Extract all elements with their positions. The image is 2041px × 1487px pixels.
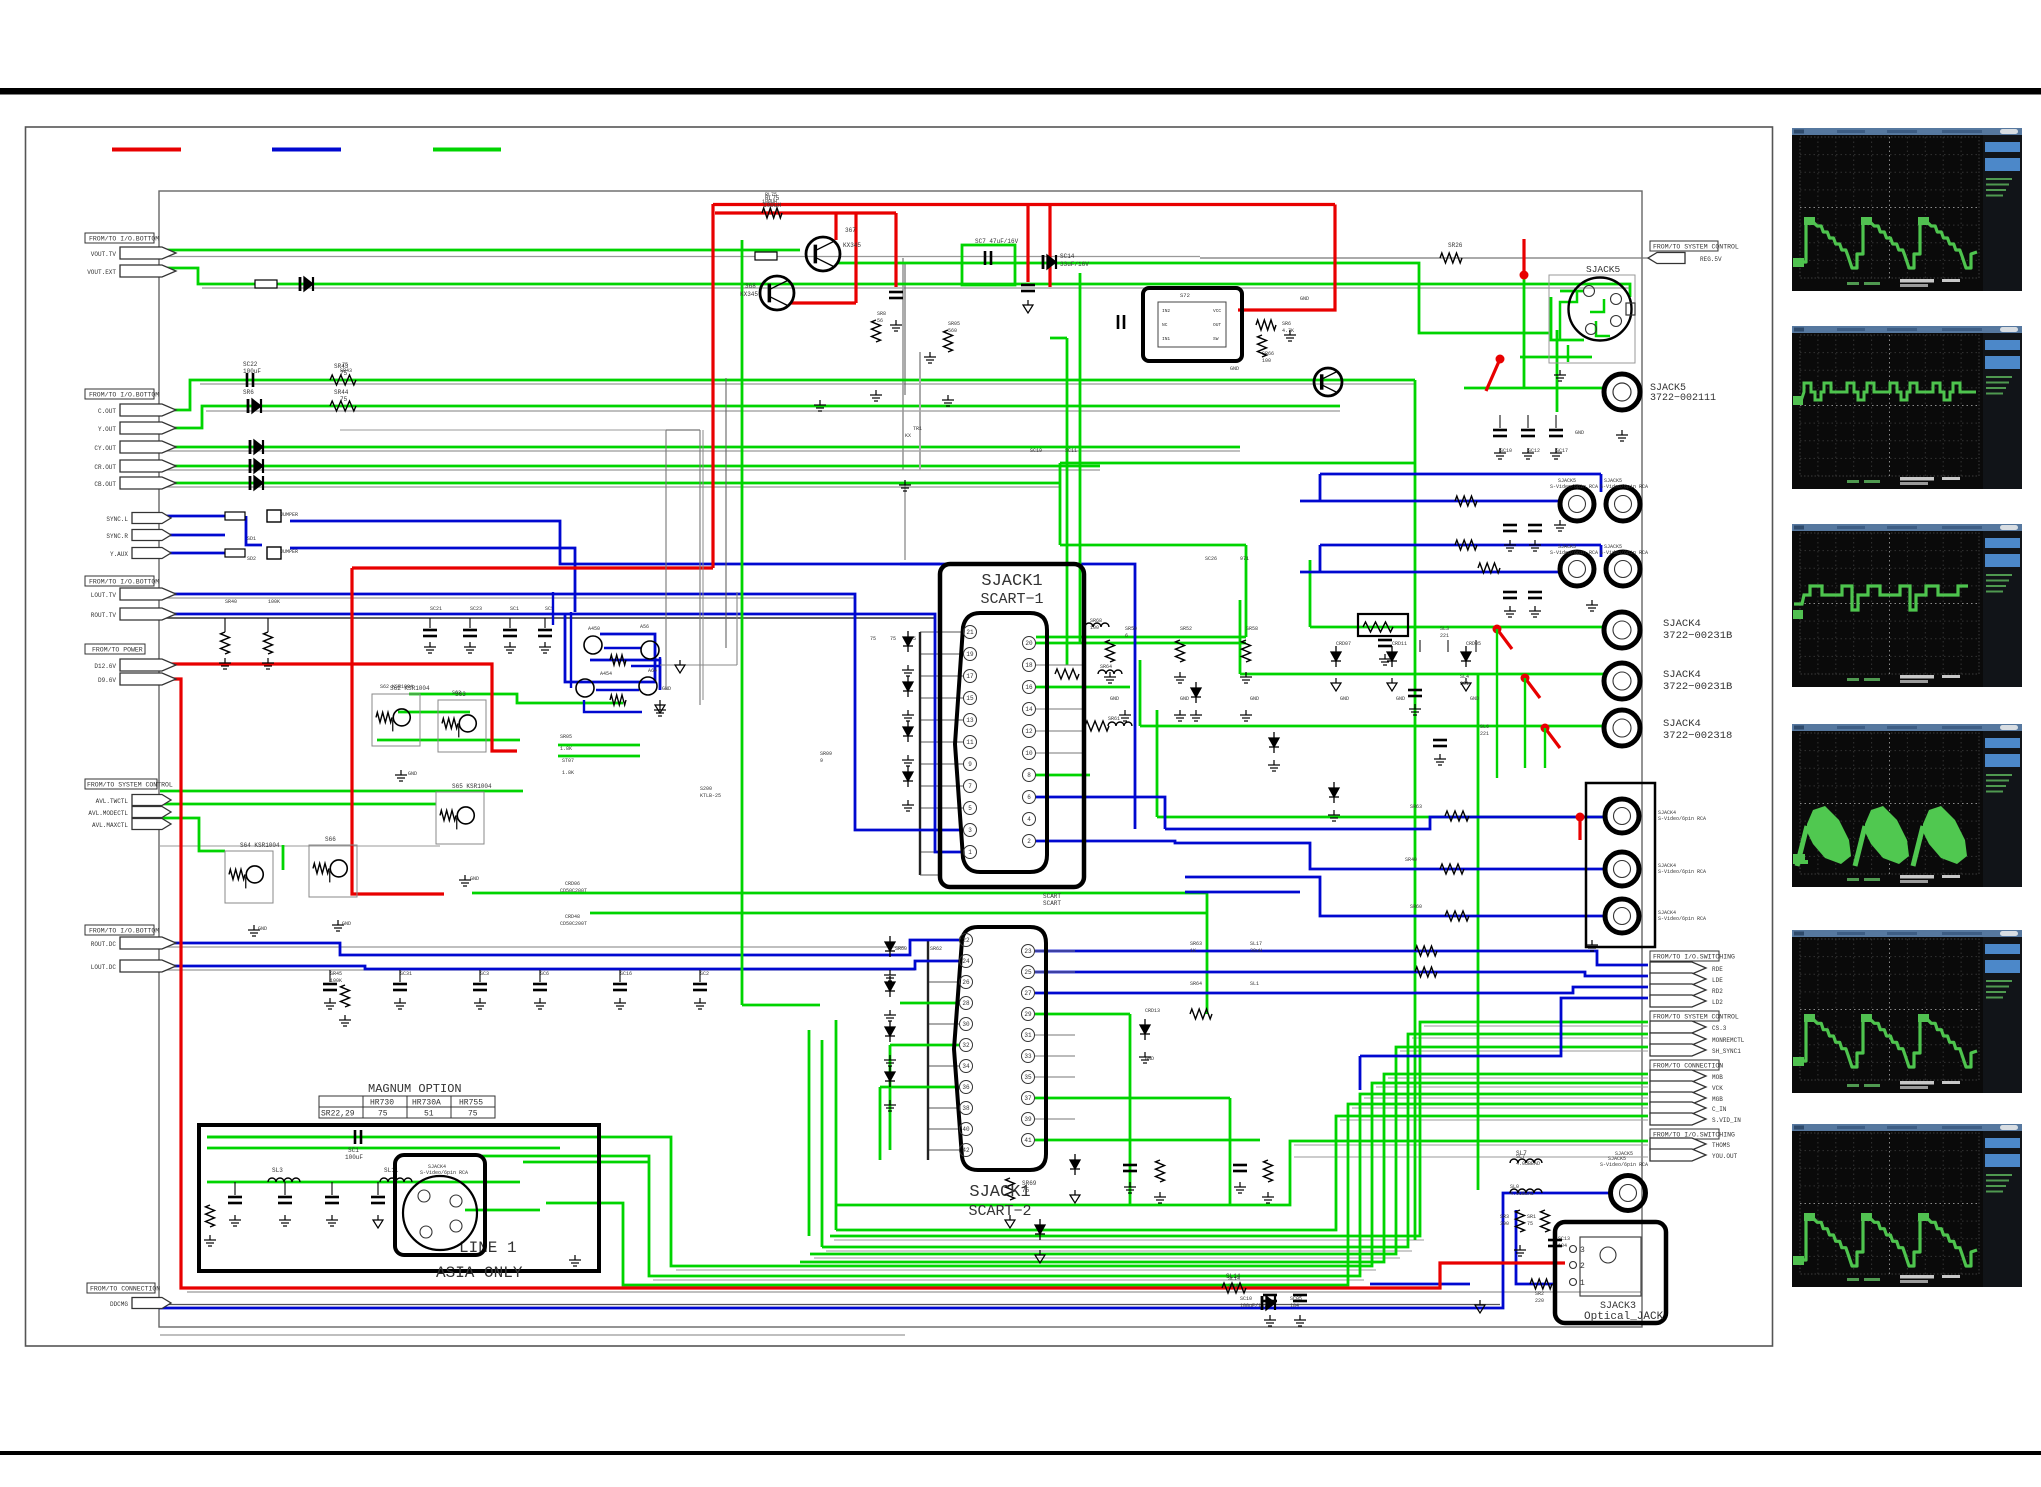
svg-text:CS.3: CS.3 <box>1712 1025 1727 1032</box>
svg-text:368: 368 <box>745 283 756 290</box>
svg-text:HR755: HR755 <box>459 1099 483 1108</box>
svg-text:SC16: SC16 <box>620 971 632 977</box>
svg-text:32: 32 <box>962 1042 970 1049</box>
svg-text:75: 75 <box>890 636 896 642</box>
svg-text:SR61: SR61 <box>1108 716 1120 722</box>
svg-text:SC1: SC1 <box>510 606 519 612</box>
svg-text:100uH: 100uH <box>763 202 781 209</box>
svg-text:SD1: SD1 <box>247 536 256 542</box>
svg-text:LOUT.DC: LOUT.DC <box>91 964 117 971</box>
svg-text:IN1: IN1 <box>1162 336 1170 342</box>
svg-text:GND: GND <box>1340 696 1349 702</box>
svg-text:SC1: SC1 <box>348 1147 359 1154</box>
svg-text:SL6: SL6 <box>1480 724 1489 730</box>
svg-text:11: 11 <box>966 739 974 746</box>
svg-text:SR09: SR09 <box>820 751 832 757</box>
svg-text:SD2: SD2 <box>247 556 256 562</box>
svg-text:RD2: RD2 <box>1712 988 1723 995</box>
svg-text:FROM/TO I/O.BOTTOM: FROM/TO I/O.BOTTOM <box>89 392 159 399</box>
svg-text:FROM/TO SYSTEM CONTROL: FROM/TO SYSTEM CONTROL <box>87 782 173 789</box>
svg-text:D9.6V: D9.6V <box>98 677 116 684</box>
svg-text:SC22: SC22 <box>243 361 258 368</box>
svg-text:560: 560 <box>948 328 957 334</box>
svg-text:12: 12 <box>1025 728 1033 735</box>
svg-text:Y.OUT: Y.OUT <box>98 426 116 433</box>
svg-text:SR6: SR6 <box>1282 321 1291 327</box>
svg-text:MOB: MOB <box>1712 1074 1723 1081</box>
svg-text:2: 2 <box>1027 838 1031 845</box>
svg-text:SR40: SR40 <box>225 599 237 605</box>
svg-text:SR05: SR05 <box>560 734 572 740</box>
svg-text:4.0UBEAD: 4.0UBEAD <box>1516 1161 1540 1167</box>
svg-text:FROM/TO CONNECTION: FROM/TO CONNECTION <box>1653 1063 1723 1070</box>
svg-text:SC19: SC19 <box>1030 448 1042 454</box>
svg-text:29: 29 <box>1024 1011 1032 1018</box>
svg-text:S-Video/6pin RCA: S-Video/6pin RCA <box>1550 550 1598 556</box>
svg-text:S-Video/6pin RCA: S-Video/6pin RCA <box>1600 484 1648 490</box>
svg-text:SC23: SC23 <box>470 606 482 612</box>
svg-text:CD50C200T: CD50C200T <box>560 888 587 894</box>
svg-text:CRD07: CRD07 <box>1336 641 1351 647</box>
svg-text:DDCMG: DDCMG <box>110 1301 128 1308</box>
svg-text:GND: GND <box>470 876 479 882</box>
svg-text:LOUT.TV: LOUT.TV <box>91 592 117 599</box>
svg-text:LD2: LD2 <box>1712 999 1723 1006</box>
svg-text:SR60: SR60 <box>895 946 907 952</box>
svg-text:KX: KX <box>905 433 911 439</box>
svg-text:SR22,29: SR22,29 <box>321 1110 355 1119</box>
svg-text:REG.5V: REG.5V <box>1700 256 1722 263</box>
svg-text:34: 34 <box>962 1063 970 1070</box>
svg-text:SC11: SC11 <box>1065 448 1077 454</box>
svg-text:SYNC.R: SYNC.R <box>106 533 128 540</box>
svg-text:CRD13: CRD13 <box>1145 1008 1160 1014</box>
svg-text:ST07: ST07 <box>562 758 574 764</box>
svg-text:RL75: RL75 <box>765 195 780 202</box>
svg-text:S.VID_IN: S.VID_IN <box>1712 1117 1741 1124</box>
svg-text:23: 23 <box>1024 948 1032 955</box>
svg-text:D12.6V: D12.6V <box>94 663 116 670</box>
svg-text:Optical_JACK: Optical_JACK <box>1584 1311 1664 1323</box>
svg-text:IN2: IN2 <box>1162 308 1170 314</box>
svg-text:SR2: SR2 <box>1535 1291 1544 1297</box>
svg-text:100uF: 100uF <box>243 368 261 375</box>
svg-text:SR45: SR45 <box>330 971 342 977</box>
svg-text:GND: GND <box>1470 696 1479 702</box>
svg-text:3722−002111: 3722−002111 <box>1650 393 1716 404</box>
svg-text:A56: A56 <box>640 624 649 630</box>
svg-text:SR3: SR3 <box>1500 1214 1509 1220</box>
svg-text:ROUT.DC: ROUT.DC <box>91 941 117 948</box>
svg-text:SJACK4: SJACK4 <box>1663 618 1701 630</box>
svg-text:100: 100 <box>1090 625 1099 631</box>
svg-text:42: 42 <box>962 1147 970 1154</box>
svg-text:221: 221 <box>1440 633 1449 639</box>
svg-text:SL3: SL3 <box>272 1167 283 1174</box>
svg-text:35: 35 <box>1024 1074 1032 1081</box>
svg-text:41: 41 <box>1024 1137 1032 1144</box>
svg-text:Y.AUX: Y.AUX <box>110 551 128 558</box>
svg-text:100: 100 <box>1262 358 1271 364</box>
svg-text:390: 390 <box>1500 1221 1509 1227</box>
svg-text:SW: SW <box>1213 336 1219 342</box>
svg-text:S-Video/6pin RCA: S-Video/6pin RCA <box>420 1170 468 1176</box>
svg-text:CRD06: CRD06 <box>565 881 580 887</box>
svg-text:SR63: SR63 <box>1410 804 1422 810</box>
svg-text:39: 39 <box>1024 1116 1032 1123</box>
svg-text:S72: S72 <box>1180 292 1190 299</box>
svg-text:CB.OUT: CB.OUT <box>94 481 116 488</box>
svg-text:MAGNUM OPTION: MAGNUM OPTION <box>368 1082 462 1096</box>
svg-text:22: 22 <box>962 937 970 944</box>
svg-text:GND: GND <box>258 926 267 932</box>
svg-text:36: 36 <box>962 1084 970 1091</box>
svg-text:LDE: LDE <box>1712 977 1723 984</box>
svg-text:14: 14 <box>1025 706 1033 713</box>
svg-text:SC7 47uF/16V: SC7 47uF/16V <box>975 238 1019 245</box>
svg-text:CRD48: CRD48 <box>565 914 580 920</box>
svg-text:4: 4 <box>1027 816 1031 823</box>
svg-text:6: 6 <box>1125 633 1128 639</box>
svg-text:SR26: SR26 <box>1448 242 1463 249</box>
svg-text:SL4: SL4 <box>1460 674 1469 680</box>
svg-text:GND: GND <box>1180 696 1189 702</box>
svg-text:SH_SYNC1: SH_SYNC1 <box>1712 1048 1741 1055</box>
svg-text:GND: GND <box>1250 696 1259 702</box>
svg-text:S62 KSR1004: S62 KSR1004 <box>390 685 430 692</box>
svg-text:221: 221 <box>1480 731 1489 737</box>
svg-text:VCC: VCC <box>1213 308 1221 314</box>
svg-text:AVL.MAXCTL: AVL.MAXCTL <box>92 822 128 829</box>
svg-text:S63: S63 <box>455 691 466 698</box>
svg-text:SL14: SL14 <box>1226 1273 1241 1280</box>
svg-text:1.8K: 1.8K <box>560 746 572 752</box>
svg-text:A64: A64 <box>648 668 657 674</box>
svg-text:SL3: SL3 <box>1440 626 1449 632</box>
svg-text:FROM/TO I/O.BOTTOM: FROM/TO I/O.BOTTOM <box>89 236 159 243</box>
svg-text:S-Video/6pin RCA: S-Video/6pin RCA <box>1600 550 1648 556</box>
svg-text:HR730A: HR730A <box>412 1099 441 1108</box>
svg-text:3722−00231B: 3722−00231B <box>1663 681 1732 693</box>
svg-text:SCART−1: SCART−1 <box>980 591 1043 608</box>
svg-text:75: 75 <box>340 396 348 403</box>
svg-text:SCART: SCART <box>1043 893 1061 900</box>
svg-text:SL7: SL7 <box>1516 1150 1527 1157</box>
svg-text:15: 15 <box>966 695 974 702</box>
svg-text:104: 104 <box>1290 1303 1299 1309</box>
svg-text:C_IN: C_IN <box>1712 1106 1727 1113</box>
svg-text:YOU.OUT: YOU.OUT <box>1712 1153 1738 1160</box>
svg-text:37: 37 <box>1024 1095 1032 1102</box>
svg-text:S-Video/6pin RCA: S-Video/6pin RCA <box>1658 916 1706 922</box>
svg-text:5: 5 <box>968 805 972 812</box>
svg-text:SL1: SL1 <box>1250 981 1259 987</box>
svg-text:JUMPER: JUMPER <box>280 549 298 555</box>
svg-text:SJACK4: SJACK4 <box>1663 669 1701 681</box>
svg-text:30uH: 30uH <box>1250 948 1262 954</box>
svg-text:OUT: OUT <box>1213 322 1221 328</box>
svg-text:CRD11: CRD11 <box>1392 641 1407 647</box>
svg-text:THOMS: THOMS <box>1712 1142 1730 1149</box>
svg-text:TR1: TR1 <box>913 426 922 432</box>
svg-text:3: 3 <box>1580 1246 1585 1255</box>
svg-text:A450: A450 <box>588 626 600 632</box>
svg-text:13: 13 <box>966 717 974 724</box>
svg-text:971: 971 <box>1240 556 1249 562</box>
svg-text:FROM/TO POWER: FROM/TO POWER <box>92 647 143 654</box>
svg-text:1.8K: 1.8K <box>562 770 574 776</box>
svg-text:AVL.MODECTL: AVL.MODECTL <box>88 810 128 817</box>
svg-text:21: 21 <box>966 629 974 636</box>
svg-text:FROM/TO I/O.BOTTOM: FROM/TO I/O.BOTTOM <box>89 928 159 935</box>
svg-text:ROUT.TV: ROUT.TV <box>91 612 117 619</box>
svg-text:7: 7 <box>968 783 972 790</box>
svg-text:SR44: SR44 <box>334 389 349 396</box>
svg-text:VOUT.TV: VOUT.TV <box>91 251 117 258</box>
svg-text:GND: GND <box>1300 296 1309 302</box>
svg-text:4.7K: 4.7K <box>1282 328 1294 334</box>
svg-text:SC3: SC3 <box>480 971 489 977</box>
svg-text:1: 1 <box>1580 1279 1585 1288</box>
svg-text:75: 75 <box>378 1110 388 1119</box>
svg-text:18: 18 <box>1025 662 1033 669</box>
svg-text:FROM/TO CONNECTION: FROM/TO CONNECTION <box>90 1286 160 1293</box>
svg-text:SR43: SR43 <box>334 363 349 370</box>
svg-text:SL17: SL17 <box>1250 941 1262 947</box>
svg-text:GND: GND <box>1110 696 1119 702</box>
svg-text:SR50: SR50 <box>1125 626 1137 632</box>
svg-text:CRD05: CRD05 <box>1466 641 1481 647</box>
svg-text:RDE: RDE <box>1712 966 1723 973</box>
svg-text:KX345: KX345 <box>740 291 758 298</box>
svg-text:SR60: SR60 <box>1410 904 1422 910</box>
svg-text:17: 17 <box>966 673 974 680</box>
svg-text:SJACK1: SJACK1 <box>981 572 1042 591</box>
svg-text:JUMPER: JUMPER <box>280 512 298 518</box>
svg-text:S-Video/6pin RCA: S-Video/6pin RCA <box>1550 484 1598 490</box>
svg-text:9: 9 <box>968 761 972 768</box>
svg-text:100K: 100K <box>268 599 280 605</box>
svg-text:2: 2 <box>1580 1262 1585 1271</box>
svg-text:3722−00231B: 3722−00231B <box>1663 630 1732 642</box>
svg-text:SC21: SC21 <box>430 606 442 612</box>
svg-text:33uF/16V: 33uF/16V <box>1060 261 1089 268</box>
svg-text:SC6: SC6 <box>540 971 549 977</box>
svg-text:NC: NC <box>1162 322 1168 328</box>
svg-text:SCART: SCART <box>1043 900 1061 907</box>
svg-text:4.0UBEAD: 4.0UBEAD <box>1510 1191 1534 1197</box>
svg-text:S64 KSR1004: S64 KSR1004 <box>240 842 280 849</box>
svg-text:SR64: SR64 <box>1100 664 1112 670</box>
svg-text:MGB: MGB <box>1712 1096 1723 1103</box>
svg-text:75: 75 <box>1527 1221 1533 1227</box>
svg-text:CR.OUT: CR.OUT <box>94 464 116 471</box>
svg-text:S65 KSR1004: S65 KSR1004 <box>452 783 492 790</box>
svg-text:10: 10 <box>1025 750 1033 757</box>
svg-text:SR52: SR52 <box>1180 626 1192 632</box>
svg-text:25: 25 <box>1024 969 1032 976</box>
svg-text:VOUT.EXT: VOUT.EXT <box>87 269 116 276</box>
svg-text:51: 51 <box>424 1110 434 1119</box>
svg-text:FROM/TO I/O.SWITCHING: FROM/TO I/O.SWITCHING <box>1653 954 1735 961</box>
svg-text:FROM/TO I/O.BOTTOM: FROM/TO I/O.BOTTOM <box>89 579 159 586</box>
svg-text:S66: S66 <box>325 836 336 843</box>
svg-text:20: 20 <box>1025 640 1033 647</box>
svg-text:HR730: HR730 <box>370 1099 394 1108</box>
svg-text:SR58: SR58 <box>1246 626 1258 632</box>
svg-text:A454: A454 <box>600 671 612 677</box>
svg-text:100uF: 100uF <box>345 1154 363 1161</box>
svg-text:75: 75 <box>468 1110 478 1119</box>
svg-text:SR1: SR1 <box>1527 1214 1536 1220</box>
svg-text:GND: GND <box>1230 366 1239 372</box>
svg-text:33: 33 <box>1024 1053 1032 1060</box>
svg-text:26: 26 <box>962 979 970 986</box>
svg-text:367: 367 <box>845 227 856 234</box>
svg-text:SR6: SR6 <box>243 389 254 396</box>
svg-text:CD50C200T: CD50C200T <box>560 921 587 927</box>
svg-text:GND: GND <box>1575 430 1584 436</box>
svg-text:AVL.TWCTL: AVL.TWCTL <box>96 798 129 805</box>
svg-text:SJACK1: SJACK1 <box>969 1183 1030 1202</box>
svg-text:GND: GND <box>662 686 671 692</box>
svg-text:CY.OUT: CY.OUT <box>94 445 116 452</box>
svg-text:38: 38 <box>962 1105 970 1112</box>
svg-text:KTLB-25: KTLB-25 <box>700 793 721 799</box>
svg-text:3722−002318: 3722−002318 <box>1663 730 1732 742</box>
svg-text:31: 31 <box>1024 1032 1032 1039</box>
svg-text:SR63: SR63 <box>1190 941 1202 947</box>
svg-text:SC31: SC31 <box>400 971 412 977</box>
svg-text:1K: 1K <box>1190 948 1196 954</box>
svg-text:1: 1 <box>968 849 972 856</box>
svg-text:SYNC.L: SYNC.L <box>106 516 128 523</box>
svg-text:SC14: SC14 <box>1060 253 1075 260</box>
svg-text:S-Video/6pin RCA: S-Video/6pin RCA <box>1658 816 1706 822</box>
svg-text:VCK: VCK <box>1712 1085 1723 1092</box>
svg-text:16: 16 <box>1025 684 1033 691</box>
svg-text:FROM/TO SYSTEM CONTROL: FROM/TO SYSTEM CONTROL <box>1653 1014 1739 1021</box>
svg-text:19: 19 <box>966 651 974 658</box>
svg-text:SR8: SR8 <box>877 311 886 317</box>
svg-text:GND: GND <box>408 771 417 777</box>
svg-text:75: 75 <box>340 370 348 377</box>
svg-text:9: 9 <box>820 758 823 764</box>
svg-text:SC2: SC2 <box>700 971 709 977</box>
svg-text:KX345: KX345 <box>843 242 861 249</box>
svg-text:ASIA ONLY: ASIA ONLY <box>436 1264 523 1282</box>
svg-text:3: 3 <box>968 827 972 834</box>
svg-text:SR62: SR62 <box>930 946 942 952</box>
svg-text:C.OUT: C.OUT <box>98 408 116 415</box>
svg-text:75: 75 <box>870 636 876 642</box>
svg-text:GND: GND <box>342 921 351 927</box>
svg-text:6: 6 <box>1027 794 1031 801</box>
svg-text:220: 220 <box>1535 1298 1544 1304</box>
svg-text:GND: GND <box>1396 696 1405 702</box>
svg-text:MONREMCTL: MONREMCTL <box>1712 1037 1745 1044</box>
svg-text:SJACK4: SJACK4 <box>1663 718 1701 730</box>
svg-text:SC26: SC26 <box>1205 556 1217 562</box>
svg-text:SR05: SR05 <box>948 321 960 327</box>
svg-text:8: 8 <box>1027 772 1031 779</box>
svg-text:SJACK5: SJACK5 <box>1586 264 1621 275</box>
svg-text:S200: S200 <box>700 786 712 792</box>
svg-text:S-Video/6pin RCA: S-Video/6pin RCA <box>1600 1162 1648 1168</box>
svg-text:SC10: SC10 <box>1240 1296 1252 1302</box>
svg-text:27: 27 <box>1024 990 1032 997</box>
svg-text:SR64: SR64 <box>1190 981 1202 987</box>
svg-text:SCART−2: SCART−2 <box>968 1203 1031 1220</box>
svg-text:S-Video/6pin RCA: S-Video/6pin RCA <box>1658 869 1706 875</box>
svg-text:SR40: SR40 <box>1405 857 1417 863</box>
svg-text:40: 40 <box>962 1126 970 1133</box>
svg-text:28: 28 <box>962 1000 970 1007</box>
svg-text:56: 56 <box>877 318 883 324</box>
svg-text:FROM/TO SYSTEM CONTROL: FROM/TO SYSTEM CONTROL <box>1653 244 1739 251</box>
svg-text:24: 24 <box>962 958 970 965</box>
svg-text:30: 30 <box>962 1021 970 1028</box>
